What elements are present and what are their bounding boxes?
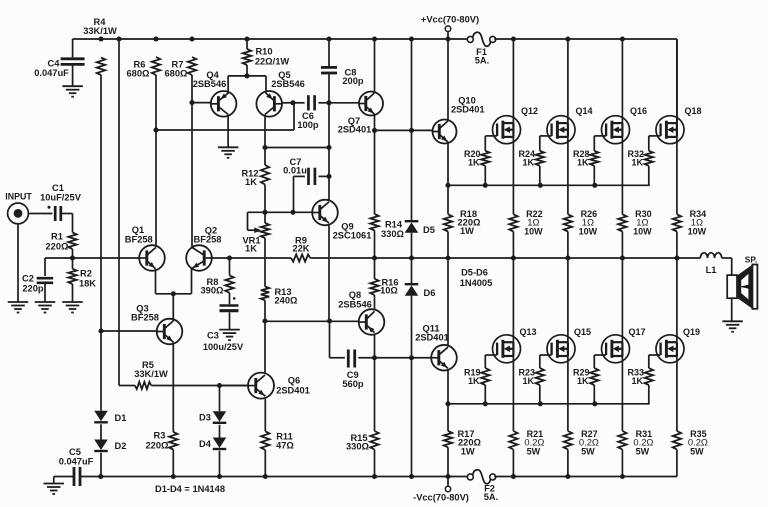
inductor L1: [677, 253, 732, 275]
svg-text:D3: D3: [199, 413, 211, 423]
resistor R20: [464, 149, 489, 186]
wire Q10 collector: [447, 39, 449, 121]
wire Q3 emitter: [172, 342, 174, 432]
wire Q12 drain: [512, 39, 514, 123]
svg-text:C1: C1: [52, 183, 64, 193]
wire Q8 base: [262, 318, 358, 323]
wire gate bus top: [448, 183, 650, 188]
wire Q12 gate: [485, 136, 497, 151]
node R6 tap: [153, 127, 158, 132]
svg-text:5W: 5W: [636, 446, 650, 456]
wire R6 to Q1 collector: [155, 130, 157, 247]
wire Q6 base stub: [220, 385, 249, 387]
wire Q19 gate: [649, 355, 661, 368]
svg-text:5A.: 5A.: [484, 492, 498, 502]
wire Q17 gate: [594, 355, 606, 368]
resistor R10: [243, 39, 290, 76]
wire R5 to Q6 base: [151, 385, 248, 387]
diode D5: [405, 39, 435, 258]
node VR1 wiper junction: [262, 210, 267, 215]
resistor R1: [46, 214, 77, 259]
resistor R29: [573, 367, 598, 404]
ground C2: [35, 302, 56, 313]
wire Q4 Q5 emitters: [228, 76, 266, 94]
svg-text:Q1: Q1: [132, 225, 144, 235]
svg-text:BF258: BF258: [194, 234, 222, 244]
svg-text:22Ω/1W: 22Ω/1W: [255, 56, 290, 66]
transistor Q3: [131, 303, 182, 344]
resistor R15: [346, 358, 379, 477]
svg-text:2SD401: 2SD401: [276, 385, 310, 395]
resistor R35: [673, 356, 708, 477]
wire Q16 gate: [594, 136, 606, 151]
resistor R6: [127, 57, 161, 130]
svg-text:100u/25V: 100u/25V: [203, 342, 244, 352]
svg-text:R3: R3: [154, 430, 166, 440]
svg-text:330Ω: 330Ω: [381, 229, 405, 239]
resistor R19: [464, 367, 489, 404]
capacitor C5: [59, 447, 94, 486]
wire Q9 emitter: [328, 225, 330, 322]
resistor R5: [134, 360, 168, 389]
svg-text:0.047uF: 0.047uF: [59, 456, 94, 466]
capacitor C3: [203, 293, 244, 352]
svg-text:C3: C3: [207, 330, 219, 340]
resistor R23: [519, 367, 544, 404]
resistor R27: [564, 356, 599, 477]
svg-text:Q14: Q14: [575, 106, 592, 116]
diode D3: [199, 386, 226, 423]
node gate bus bottom left: [445, 401, 450, 406]
wire Q2 emitter: [173, 269, 191, 294]
resistor R12: [241, 148, 269, 213]
wire Q4 collector to ground: [227, 114, 229, 147]
wire Q7 emitter: [374, 114, 376, 130]
svg-text:Q6: Q6: [288, 375, 300, 385]
svg-text:1N4005: 1N4005: [460, 278, 493, 288]
node Q1 Q2 emitter junction: [171, 291, 176, 296]
capacitor C9: [342, 350, 374, 389]
transistor Q15: [547, 327, 591, 363]
svg-text:R2: R2: [80, 268, 92, 278]
svg-text:200p: 200p: [342, 76, 364, 86]
resistor R16: [370, 258, 398, 310]
svg-text:C2: C2: [22, 273, 34, 283]
wire +Vcc top rail: [73, 38, 677, 40]
svg-text:1K: 1K: [632, 157, 644, 167]
resistor R31: [618, 356, 653, 477]
svg-text:1K: 1K: [577, 376, 589, 386]
resistor R4: [83, 17, 117, 331]
wire Q10 emitter: [447, 142, 449, 185]
resistor R8: [201, 258, 234, 295]
node C6 right junction: [326, 100, 331, 105]
node R1 R2 junction: [70, 255, 75, 260]
transistor Q16: [602, 106, 648, 144]
ground C3: [219, 330, 240, 341]
svg-text:100p: 100p: [297, 120, 319, 130]
svg-text:680Ω: 680Ω: [127, 68, 151, 78]
transistor Q19: [656, 327, 700, 363]
diode D2: [94, 424, 126, 476]
fuse F2: [467, 470, 498, 502]
svg-text:1K: 1K: [632, 376, 644, 386]
svg-text:D5: D5: [423, 225, 435, 235]
diode D6: [405, 258, 436, 358]
svg-text:2SB546: 2SB546: [338, 299, 372, 309]
node C6 left junction: [290, 100, 295, 105]
transistor Q1: [125, 225, 165, 271]
resistor R32: [628, 149, 653, 186]
label D5-D6: [460, 267, 493, 288]
svg-text:680Ω: 680Ω: [165, 68, 189, 78]
resistor R2: [68, 258, 96, 302]
resistor R9: [291, 235, 310, 261]
svg-text:33K/1W: 33K/1W: [83, 26, 117, 36]
svg-text:C4: C4: [48, 58, 61, 68]
capacitor C6: [293, 95, 329, 130]
svg-text:R14: R14: [385, 219, 403, 229]
wire -Vcc bottom rail: [54, 476, 677, 478]
transistor Q10: [433, 95, 485, 143]
wire Q18 drain: [676, 39, 678, 123]
node Q11 base junction: [372, 355, 414, 360]
svg-text:220Ω: 220Ω: [46, 241, 70, 251]
wire Q5 base: [282, 102, 293, 104]
wire x265 to Q6 collector: [264, 321, 266, 374]
svg-text:D5-D6: D5-D6: [461, 267, 488, 277]
svg-text:1K: 1K: [245, 177, 257, 187]
resistor R14: [370, 130, 404, 258]
svg-text:D1-D4 = 1N4148: D1-D4 = 1N4148: [155, 484, 225, 494]
ground C4: [62, 86, 83, 97]
wire Q15 gate: [540, 355, 552, 368]
node Q4 base junction: [189, 100, 194, 105]
svg-text:D2: D2: [115, 441, 127, 451]
wire Q3 collector: [172, 294, 174, 321]
wire Q1 base: [45, 257, 139, 259]
wire Q17 drain: [621, 258, 623, 342]
svg-text:INPUT: INPUT: [5, 191, 32, 201]
wire C9 left: [330, 321, 345, 358]
svg-text:390Ω: 390Ω: [201, 285, 225, 295]
wire Q7 to Q10 base: [375, 129, 433, 131]
ground speaker: [722, 298, 743, 332]
svg-text:C5: C5: [69, 447, 81, 457]
capacitor C7: [283, 157, 329, 213]
ground Q4: [218, 147, 239, 158]
resistor R11: [261, 398, 294, 477]
wire R7 to Q2 collector: [191, 103, 193, 248]
resistor R33: [628, 367, 653, 404]
wire output bus: [212, 257, 677, 259]
transistor Q5: [256, 70, 304, 116]
resistor R17: [444, 404, 482, 477]
resistor R22: [509, 137, 543, 258]
svg-text:2SB546: 2SB546: [193, 79, 227, 89]
speaker SP: [727, 255, 757, 309]
svg-text:1W: 1W: [460, 226, 474, 236]
wire Q4 base: [192, 102, 211, 104]
capacitor C8: [321, 39, 364, 103]
svg-text:5W: 5W: [581, 446, 595, 456]
resistor R7: [165, 57, 197, 103]
svg-text:240Ω: 240Ω: [275, 296, 299, 306]
wire Q3 base: [101, 330, 157, 332]
wire Q18 gate: [649, 136, 661, 151]
node C7 right junction: [326, 174, 331, 179]
wire Q14 gate: [540, 136, 552, 151]
svg-text:D6: D6: [424, 288, 436, 298]
resistor R24: [519, 149, 544, 186]
wire rail right corner: [676, 39, 678, 123]
wire C9 to Q11 base: [375, 357, 432, 359]
svg-text:560p: 560p: [342, 379, 364, 389]
wire D6 to bottom rail: [411, 358, 413, 477]
svg-text:22K: 22K: [292, 244, 309, 254]
svg-text:2SD401: 2SD401: [451, 104, 485, 114]
wire Q13 drain: [512, 258, 514, 342]
svg-text:33K/1W: 33K/1W: [134, 369, 168, 379]
transistor Q18: [656, 106, 702, 144]
wire R6 tap to C6 node: [156, 103, 294, 130]
node Q10 base junction: [372, 128, 414, 133]
transistor Q9: [312, 200, 371, 241]
svg-text:10W: 10W: [633, 226, 652, 236]
capacitor C4: [34, 39, 84, 86]
ground input jack: [8, 302, 29, 313]
node bottom rail junctions: [98, 474, 625, 479]
svg-text:D4: D4: [199, 439, 212, 449]
wire Q16 drain: [621, 39, 623, 123]
capacitor C1: [28, 183, 81, 221]
wire Q13 gate: [485, 355, 497, 368]
ground C5: [44, 477, 65, 495]
svg-text:0.01u: 0.01u: [283, 166, 307, 176]
wire Q7 collector: [374, 39, 376, 93]
svg-text:Q18: Q18: [684, 106, 701, 116]
svg-text:1W: 1W: [461, 446, 475, 456]
transistor Q6: [248, 373, 310, 399]
wire L1 to speaker: [731, 258, 733, 275]
svg-text:2SB546: 2SB546: [271, 79, 305, 89]
svg-text:18K: 18K: [79, 278, 96, 288]
node D3 junction: [217, 383, 222, 388]
svg-text:R1: R1: [51, 231, 63, 241]
node Q3 base junction: [98, 328, 103, 333]
ground R2: [62, 302, 83, 313]
resistor R13: [261, 258, 298, 321]
svg-text:BF258: BF258: [125, 234, 153, 244]
transistor Q7: [338, 92, 383, 135]
fuse F1: [467, 32, 495, 65]
svg-text:0.047uF: 0.047uF: [34, 68, 69, 78]
node output bus junctions: [227, 255, 680, 260]
svg-text:1K: 1K: [523, 157, 535, 167]
resistor R34: [673, 137, 707, 258]
svg-text:220Ω: 220Ω: [146, 440, 170, 450]
wire Q5 collector: [264, 114, 266, 147]
svg-text:1K: 1K: [468, 376, 480, 386]
node R12 top junction: [262, 145, 331, 150]
svg-text:Q15: Q15: [574, 327, 591, 337]
svg-text:+Vcc(70-80V): +Vcc(70-80V): [421, 14, 479, 24]
transistor Q2: [186, 225, 221, 270]
svg-text:10uF/25V: 10uF/25V: [40, 193, 82, 203]
resistor R26: [564, 137, 598, 258]
svg-text:10W: 10W: [579, 226, 598, 236]
wire C8 to Q9 collector: [328, 103, 330, 201]
diode D4: [199, 425, 226, 477]
svg-text:1K: 1K: [245, 243, 257, 253]
svg-text:Q13: Q13: [519, 327, 536, 337]
resistor R3: [146, 430, 178, 476]
wire rail to R5: [119, 39, 135, 386]
node gate bus top left: [445, 183, 450, 188]
svg-text:L1: L1: [706, 265, 717, 275]
svg-text:220p: 220p: [22, 283, 44, 293]
svg-text:SP.: SP.: [745, 255, 757, 265]
wire Q8 emitter: [374, 334, 376, 358]
wire Q15 drain: [567, 258, 569, 342]
svg-text:R10: R10: [255, 46, 272, 56]
wire Q19 drain: [676, 258, 678, 342]
svg-text:Q17: Q17: [628, 327, 645, 337]
svg-text:1K: 1K: [577, 157, 589, 167]
label D1-D4: [155, 484, 225, 494]
input jack: [5, 191, 32, 301]
resistor R18: [444, 185, 481, 258]
diode D1: [94, 331, 126, 423]
transistor Q4: [193, 70, 237, 116]
wire Q11 collector: [447, 258, 449, 346]
svg-text:10Ω: 10Ω: [380, 286, 398, 296]
svg-text:Q8: Q8: [349, 290, 361, 300]
svg-text:2SC1061: 2SC1061: [333, 230, 372, 240]
wire Q14 drain: [567, 39, 569, 123]
svg-text:Q12: Q12: [521, 106, 538, 116]
wire Q11 emitter: [447, 369, 449, 404]
potentiometer VR1: [242, 212, 269, 258]
-Vcc terminal: [413, 477, 469, 503]
svg-text:5A.: 5A.: [475, 56, 489, 66]
transistor Q14: [547, 106, 593, 144]
node Q4 Q5 emitter junction: [244, 73, 249, 78]
svg-text:2SD401: 2SD401: [338, 125, 372, 135]
wire gate bus bottom: [448, 401, 650, 406]
transistor Q13: [493, 327, 537, 363]
svg-text:D1: D1: [115, 413, 127, 423]
svg-text:1K: 1K: [523, 376, 535, 386]
svg-text:2SD401: 2SD401: [415, 332, 449, 342]
node top rail junctions: [98, 36, 625, 41]
svg-text:-Vcc(70-80V): -Vcc(70-80V): [413, 492, 469, 502]
capacitor C2: [22, 258, 53, 302]
transistor Q11: [415, 323, 457, 370]
wire Q1 emitter: [156, 269, 174, 294]
svg-text:BF258: BF258: [131, 312, 159, 322]
svg-text:10W: 10W: [524, 226, 543, 236]
svg-text:47Ω: 47Ω: [276, 440, 294, 450]
resistor R30: [618, 137, 652, 258]
svg-text:10W: 10W: [688, 226, 707, 236]
svg-text:Q16: Q16: [630, 106, 647, 116]
svg-text:5W: 5W: [690, 446, 704, 456]
wire Q9 base: [265, 210, 312, 215]
resistor R28: [573, 149, 598, 186]
+Vcc terminal: [421, 14, 479, 39]
wire C6 to Q7 base: [329, 102, 359, 104]
svg-text:330Ω: 330Ω: [346, 442, 370, 452]
svg-text:5W: 5W: [527, 446, 541, 456]
svg-text:1K: 1K: [468, 157, 480, 167]
transistor Q12: [493, 106, 539, 144]
svg-text:Q19: Q19: [683, 327, 700, 337]
transistor Q17: [602, 327, 646, 363]
transistor Q8: [338, 290, 384, 335]
resistor R21: [509, 356, 544, 477]
